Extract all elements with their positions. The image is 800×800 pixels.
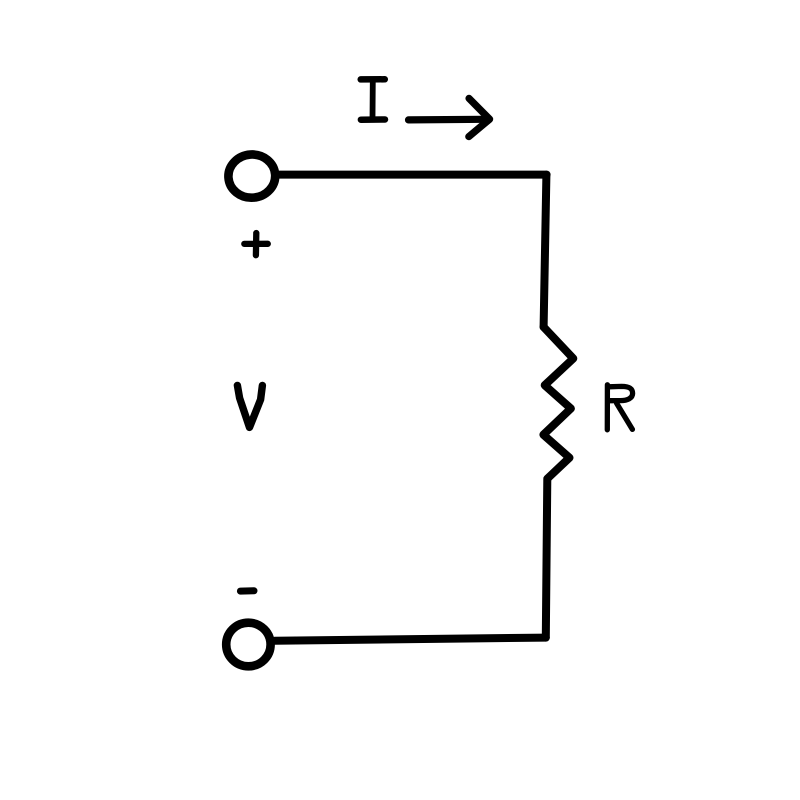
current direction arrow (409, 98, 490, 136)
terminal circle (positive) (227, 153, 277, 199)
resistor R (zigzag) (543, 327, 573, 479)
label R (resistor) (607, 385, 632, 430)
wire: right vertical lower segment (546, 479, 548, 638)
label V (voltage) (237, 385, 262, 427)
plus sign (244, 233, 267, 255)
wire: bottom horizontal to - terminal (275, 638, 546, 641)
minus sign (240, 587, 254, 594)
wire: right vertical upper segment (544, 175, 547, 327)
terminal circle (negative) (226, 623, 270, 667)
wire: top horizontal from + terminal to top-right corner (276, 171, 547, 179)
label I (current) (361, 79, 385, 119)
